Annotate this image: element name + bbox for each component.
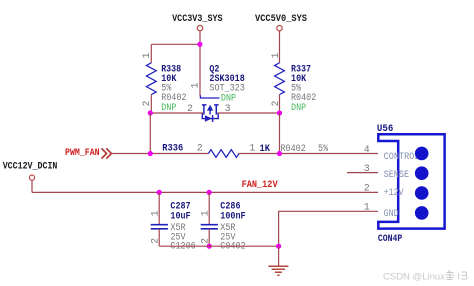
svg-text:10uF: 10uF <box>170 211 190 222</box>
node junction C286 tap <box>207 190 212 195</box>
svg-text:1: 1 <box>271 52 282 58</box>
svg-text:DNP: DNP <box>161 103 176 114</box>
svg-text:VCC5V0_SYS: VCC5V0_SYS <box>255 14 307 25</box>
svg-text:2: 2 <box>201 238 212 244</box>
wire R336 to connector pin4 <box>239 153 379 155</box>
power symbol VCC3V3_SYS <box>172 14 223 31</box>
connector U56 <box>377 124 445 245</box>
wire caps bottom rail <box>159 245 278 247</box>
svg-text:1: 1 <box>249 143 255 154</box>
capacitor C286 <box>201 192 246 252</box>
wire VCC3V3 vertical to gate <box>199 31 201 96</box>
svg-text:4: 4 <box>364 145 370 156</box>
svg-text:1: 1 <box>201 210 212 216</box>
wire Q2 pin3 to R337 bottom <box>217 112 279 114</box>
svg-text:DNP: DNP <box>221 93 236 104</box>
wire VCC3V3 horizontal to R338 top <box>151 43 200 45</box>
wire PWM_FAN to R336 <box>110 153 208 155</box>
transistor Q2 <box>187 64 245 122</box>
svg-text:2: 2 <box>151 238 162 244</box>
svg-text:CSDN @Linux: CSDN @Linux <box>383 272 445 283</box>
resistor R336 <box>162 143 255 157</box>
node junction C286 bottom <box>207 244 212 249</box>
svg-text:C1206: C1206 <box>170 242 195 253</box>
svg-text:C0402: C0402 <box>220 242 245 253</box>
svg-text:1: 1 <box>142 52 153 58</box>
svg-text:2: 2 <box>364 184 370 195</box>
wire GND pin1 route <box>279 211 378 246</box>
svg-text:FAN_12V: FAN_12V <box>242 180 278 191</box>
svg-text:SENSE: SENSE <box>384 169 410 181</box>
node junction R338 bottom <box>148 110 153 115</box>
node junction at VCC3V3 branch <box>197 42 202 47</box>
svg-text:1: 1 <box>190 82 201 88</box>
svg-text:1: 1 <box>364 203 370 214</box>
svg-text:DNP: DNP <box>291 103 306 114</box>
power symbol VCC12V_DCIN <box>3 162 58 181</box>
svg-text:2: 2 <box>197 143 203 154</box>
node junction ground <box>276 244 281 249</box>
svg-text:PWM_FAN: PWM_FAN <box>65 148 100 159</box>
wire R338 junction down to PWM row <box>149 113 151 154</box>
ground <box>268 266 288 275</box>
svg-text:3: 3 <box>364 164 370 175</box>
wire R338 bottom to Q2 pin2 <box>150 112 203 114</box>
svg-text:2: 2 <box>142 100 153 106</box>
svg-text:CONTROL: CONTROL <box>384 151 420 163</box>
svg-text:CON4P: CON4P <box>378 234 402 245</box>
svg-text:GND: GND <box>384 208 399 220</box>
resistor R337 <box>271 31 316 114</box>
node junction PWM right <box>277 151 282 156</box>
resistor R338 <box>142 44 187 114</box>
svg-text:2: 2 <box>271 100 282 106</box>
node junction Q2 drain / R337 <box>277 110 282 115</box>
off-page chevron PWM_FAN <box>102 148 112 158</box>
capacitor C287 <box>151 192 196 252</box>
svg-text:R336: R336 <box>162 143 183 154</box>
wire to ground symbol <box>278 246 280 266</box>
wire FAN_12V rail to pin2 <box>32 191 378 193</box>
wire R337 junction down to PWM row <box>279 113 281 154</box>
svg-text:+12V: +12V <box>384 187 405 199</box>
node junction C287 tap <box>157 190 162 195</box>
power symbol VCC5V0_SYS <box>255 14 307 31</box>
wire VCC12V down <box>31 180 33 192</box>
node junction PWM left <box>148 151 153 156</box>
svg-text:100nF: 100nF <box>220 211 245 222</box>
svg-text:VCC12V_DCIN: VCC12V_DCIN <box>3 162 58 173</box>
svg-text:1: 1 <box>151 210 162 216</box>
svg-text:VCC3V3_SYS: VCC3V3_SYS <box>172 14 223 25</box>
wire SENSE stub pin3 <box>347 172 378 174</box>
